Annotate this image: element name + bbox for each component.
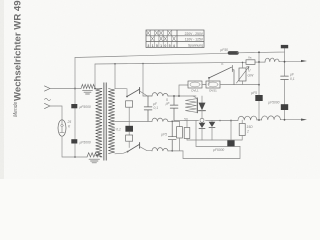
wire vertical x284.5 [284, 52, 286, 104]
vibrator contact S1 fixed stack [126, 101, 133, 107]
node [258, 119, 260, 121]
wire cap feed [230, 121, 232, 141]
diode D3 [209, 122, 216, 127]
wire mid rail y140 [187, 139, 242, 141]
table link X marks [147, 31, 176, 41]
choke Dr2 [87, 153, 101, 157]
fuse feed wire [179, 85, 188, 96]
wire rail y96 [143, 95, 196, 97]
wire to Rb [172, 121, 179, 126]
wire vertical x143 [142, 64, 144, 97]
vibrator contact S1 arm [127, 90, 139, 97]
capacitor C6 (block) [281, 104, 288, 110]
output terminal arrow bottom [301, 119, 307, 121]
fuse DVS1 [206, 81, 220, 88]
wire secondary top tap [115, 88, 127, 90]
rectifier cell circle [200, 118, 204, 122]
node rail junction [219, 120, 221, 122]
input terminal 2 [45, 103, 51, 108]
inductor La on rail 2 [265, 58, 279, 62]
inductor L2 [152, 118, 168, 121]
wire lamp to bottom rail [62, 136, 87, 157]
transformer core [104, 83, 106, 161]
wire secondary top tap riser [114, 64, 116, 89]
inductor L4 [238, 116, 257, 120]
vibrator contact S1 pivot [126, 96, 128, 98]
wire input rail y88.5 [50, 88, 81, 90]
capacitor Cv (vibrator buffer) [125, 126, 133, 132]
node rail2/x259 junction [258, 61, 260, 63]
resistor Ra (box) on rail 2 [246, 60, 255, 65]
table link columns [150, 30, 172, 48]
lamp K25 [58, 120, 66, 136]
diode D2 below [199, 123, 206, 128]
wire S2 to coil3 [140, 147, 152, 151]
node [171, 150, 173, 152]
node [258, 84, 260, 86]
wire fuse out [220, 84, 259, 86]
capacitor Cb (block) [255, 95, 262, 101]
node [173, 95, 175, 97]
wire stack to pivot [128, 141, 130, 147]
capacitor C3 plates [144, 96, 152, 121]
node fuse feed junction [178, 95, 180, 97]
node C7 feed junction [230, 120, 232, 122]
wire rail1 to node [237, 48, 285, 53]
switch K arm [209, 67, 232, 78]
resistor R150 (box) [239, 124, 245, 136]
wire center tap [115, 120, 148, 122]
vibrator contact S2 arm [128, 145, 140, 152]
transformer T1 left winding [96, 89, 102, 157]
wire rail 2 [95, 62, 301, 64]
inductor L3 [152, 148, 168, 151]
wire between fuses [202, 84, 206, 86]
inductor L1 [152, 93, 168, 96]
wire bottom loop [183, 146, 240, 158]
wire S1 to rail [140, 91, 152, 96]
diode D1 top [201, 96, 203, 103]
wire vertical x75 [74, 58, 76, 158]
switch K contact [232, 65, 234, 84]
node rail2/x143 junction [142, 63, 144, 65]
node dot x75 rail [74, 88, 76, 90]
capacitor Ca (block) on rail 1 [230, 51, 238, 55]
node regulator top junction [242, 62, 244, 64]
output terminal arrow top [301, 60, 307, 62]
driver coil Dr3 [185, 99, 196, 113]
input terminal 1 [45, 86, 51, 91]
wire top rail 1 [75, 53, 229, 57]
node rail1 end junction [258, 51, 260, 53]
wire choke to transformer [95, 88, 102, 90]
capacitor C1 (block) [71, 104, 77, 108]
wire rail2 left leg [94, 64, 96, 89]
capacitor C5 plates [281, 76, 289, 79]
node [171, 121, 173, 123]
transformer T1 right winding [108, 89, 114, 154]
capacitor C9 chain [168, 121, 176, 150]
vibrator contact S2 fixed stack [126, 135, 133, 141]
wire x196 down [195, 120, 197, 146]
wire loop top [196, 145, 240, 147]
node rail2/secondary junction [114, 63, 116, 65]
paper grain [0, 0, 1, 1]
capacitor Cc (block, top) [281, 45, 288, 48]
capacitor C4 plates [170, 96, 178, 121]
node rail2/x284 junction [284, 61, 286, 63]
regulator resistor U [239, 68, 246, 81]
capacitor C2 (block) [71, 139, 77, 143]
wire secondary bottom tap to S2 [115, 152, 128, 154]
fuse DVL1 [188, 81, 202, 88]
capacitor C7 (block) [227, 140, 234, 146]
ac symbol [45, 98, 51, 100]
resistor Rb (small box) [177, 127, 183, 138]
wire term2 to lamp [50, 106, 62, 120]
wire Cv to S2 stack [128, 132, 130, 135]
voltage selector table frame [146, 30, 204, 48]
resistor Rc (small box) [184, 128, 190, 139]
switch K stem [208, 78, 210, 85]
wire DC rail y120 [174, 119, 301, 122]
choke Dr1 [81, 84, 95, 88]
paper edge shade [0, 0, 4, 179]
wire vertical x259 [258, 52, 260, 95]
wire contact stack down [128, 107, 130, 126]
node dot x75 bottom [74, 156, 76, 158]
inductor L5 [261, 116, 280, 120]
node primary top junction [94, 88, 96, 90]
